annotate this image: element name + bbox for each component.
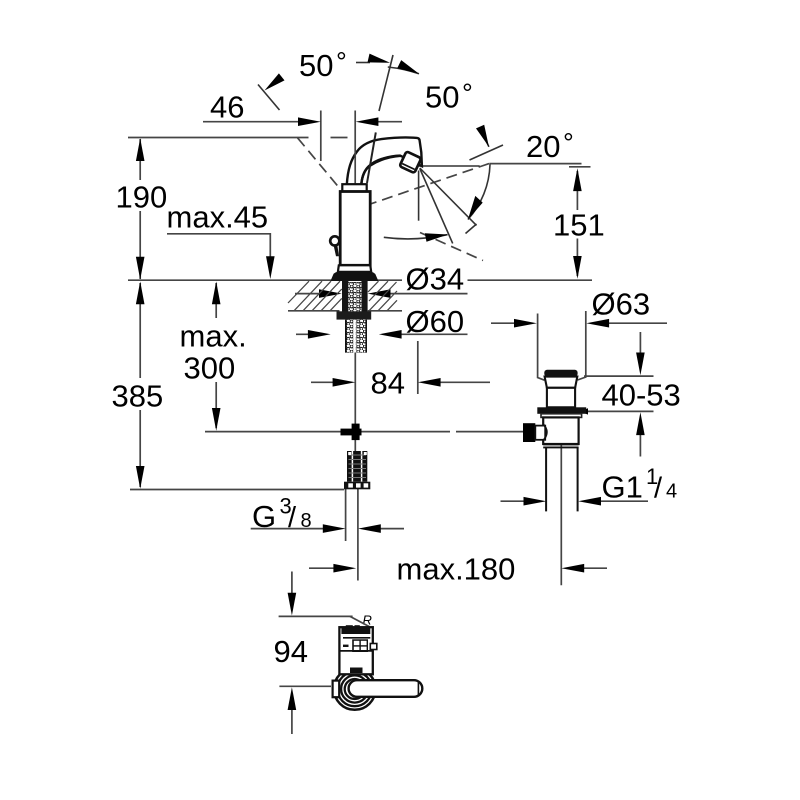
rod junction block [341, 429, 362, 436]
svg-text:84: 84 [371, 366, 405, 401]
lever tick [417, 682, 419, 696]
G3/8 dim line [251, 528, 325, 530]
spout body [347, 137, 422, 184]
flange under band [541, 414, 582, 418]
dia60 dim line [296, 333, 313, 335]
left dash [343, 645, 349, 647]
arrow max180 left [333, 564, 356, 573]
max.180 dim line [309, 567, 335, 569]
94 dim line lower [291, 709, 293, 734]
tick 50deg center mark [379, 55, 393, 111]
fan line 67deg [420, 169, 453, 244]
46 extension line left [320, 111, 322, 162]
plug neck [545, 377, 578, 388]
arrow 385 bottom [136, 466, 145, 489]
svg-text:40-53: 40-53 [602, 378, 681, 413]
lower rod [357, 489, 359, 581]
84 extension line [417, 341, 419, 394]
cartridge lines [339, 650, 372, 652]
G1 1/4 dim line [501, 500, 526, 502]
countertop line [128, 279, 402, 281]
plug cylinder [547, 388, 575, 408]
inner pivot circles [341, 675, 368, 702]
hatch left of shank [288, 281, 342, 311]
arrow max45 down [266, 256, 275, 279]
left tab [333, 681, 340, 698]
dia34 dim line [295, 293, 322, 295]
base flange [332, 272, 378, 281]
dia63 dim line [491, 322, 515, 324]
body bottom double line [543, 444, 578, 447]
arrow dia34 right [368, 289, 391, 298]
svg-text:Ø63: Ø63 [592, 287, 651, 322]
arrow 190 bottom [136, 257, 145, 280]
arrow 46 left [298, 117, 321, 126]
svg-text:Ø34: Ø34 [406, 262, 465, 297]
arrow 84 right [418, 378, 441, 387]
arrow 46 right [356, 117, 379, 126]
40-53 top extension [584, 375, 654, 377]
tick across spray line [466, 224, 477, 234]
spout inner curve [361, 156, 400, 185]
arrow max300 top [212, 281, 221, 304]
handle bottom reference [279, 685, 331, 687]
151 top extension [569, 166, 591, 168]
dia63 left extension / envelope [538, 314, 545, 381]
hatch right of shank [368, 281, 397, 311]
arrow 151 top [573, 168, 582, 191]
shank right wall [361, 280, 367, 312]
pivot circles [334, 668, 376, 710]
190 dim line [139, 139, 141, 180]
cap underline [343, 637, 370, 639]
handle leader diagonal [350, 616, 370, 627]
40-53 dim line upper [639, 332, 641, 354]
collar [342, 184, 366, 191]
plug head [544, 370, 577, 377]
svg-text:4: 4 [666, 481, 677, 503]
arrow 94 top [288, 593, 297, 616]
svg-text:46: 46 [210, 90, 244, 125]
arrow G38 right [358, 524, 381, 533]
cartridge [339, 627, 372, 674]
drain body [543, 417, 578, 444]
threaded rod texture upper [348, 282, 361, 312]
arrow G38 left [323, 524, 346, 533]
385 dim line [139, 283, 141, 378]
arrow max180 right [561, 564, 584, 573]
arrow 151 bottom [573, 256, 582, 279]
side knob ring [330, 236, 339, 245]
drain flange [537, 407, 586, 414]
svg-text:max.: max. [180, 319, 247, 354]
arrow 50a right (A2) [368, 54, 391, 63]
counter slab bottom line [288, 310, 340, 312]
side knob tail [334, 245, 339, 256]
body [340, 192, 370, 266]
rod clamp box [535, 426, 545, 440]
tick 50deg right mark [470, 145, 504, 160]
svg-text:385: 385 [112, 379, 164, 414]
max.45 leader [167, 234, 270, 257]
mounting nut [337, 311, 372, 319]
right bump [370, 644, 377, 650]
arrow dia34 left [319, 289, 342, 298]
dashed spray rotated [420, 233, 483, 261]
nozzle [400, 151, 422, 173]
20deg arc [468, 165, 490, 220]
svg-text:/: / [654, 473, 663, 505]
arrow 20deg arc end [468, 196, 483, 220]
body bottom band [338, 265, 371, 272]
arrow max300 bottom [212, 408, 221, 431]
svg-text:300: 300 [184, 351, 236, 386]
rod clamp block [523, 423, 535, 442]
40-53 dim line lower [639, 434, 641, 457]
dashed spray axis 20deg [366, 164, 489, 206]
arrow 94 bottom [288, 687, 297, 710]
svg-text:151: 151 [553, 208, 605, 243]
svg-text:max.45: max.45 [167, 200, 269, 235]
supply hose line [345, 489, 347, 541]
arc stub A3 [388, 67, 419, 74]
ball joint arc [543, 424, 546, 439]
G3/8 coupling block [344, 451, 370, 489]
horizontal line from nozzle [418, 165, 479, 167]
tailpipe walls [546, 447, 578, 511]
arrow dia60 left [308, 330, 331, 339]
20deg horizontal reference [489, 163, 581, 165]
arrow 40-53 flange pointer [580, 408, 589, 414]
handle top reference [279, 615, 353, 617]
svg-text:G1: G1 [602, 470, 643, 505]
top lever line [367, 132, 376, 183]
fan line 46deg [420, 168, 477, 225]
arrow 50b upper (A3) [397, 60, 419, 74]
shank left wall [342, 280, 348, 312]
tick 50deg far left [258, 85, 280, 111]
46 dim line [203, 121, 299, 123]
arrow G114 left [524, 497, 547, 506]
svg-text:94: 94 [274, 634, 308, 669]
arrow 40-53 down [636, 353, 645, 376]
water stream vertical [418, 171, 420, 221]
pop-up rod horizontal line [205, 431, 450, 433]
arrow dia63 right [586, 319, 609, 328]
svg-text:190: 190 [116, 180, 168, 215]
mid detail grid [352, 639, 368, 652]
dashed spout rotation line left [298, 138, 347, 197]
dia63 right extension / envelope [578, 311, 586, 380]
dash to arrow A2 [356, 62, 370, 64]
arrow 50b lower (A4) [476, 125, 489, 147]
84 dim line [311, 381, 335, 383]
drain centerline [560, 420, 562, 586]
151 dim line [576, 171, 578, 210]
94 dim line upper [291, 572, 293, 594]
top reference line (faucet top level) [128, 137, 309, 139]
lever [349, 680, 423, 697]
stem band [350, 668, 363, 674]
arrow 50a left (A1) [265, 73, 285, 90]
40-53 bottom extension [588, 410, 654, 412]
cap tabs [346, 625, 353, 628]
max.300 dim line [215, 283, 217, 318]
arrow 385 top [136, 281, 145, 304]
arrow 84 left [333, 378, 356, 387]
arrow dia60 right [379, 330, 402, 339]
arrow dia63 left [514, 319, 537, 328]
faucet pop-up rod [354, 352, 356, 451]
46 extension line right / faucet centerline above [354, 111, 356, 184]
centerline dash at top [331, 137, 348, 139]
arrow 190 top [136, 138, 145, 161]
arrow G114 right [578, 497, 601, 506]
cartridge cap strip [341, 628, 370, 634]
arc stub A4 [480, 130, 489, 147]
svg-text:max.180: max.180 [397, 552, 516, 587]
arrow fan arc end [425, 233, 448, 242]
arrow 40-53 up [636, 412, 645, 435]
threaded stud lower [346, 320, 366, 353]
lower fan arc [384, 235, 448, 239]
bottom reference line (385) [130, 489, 344, 491]
